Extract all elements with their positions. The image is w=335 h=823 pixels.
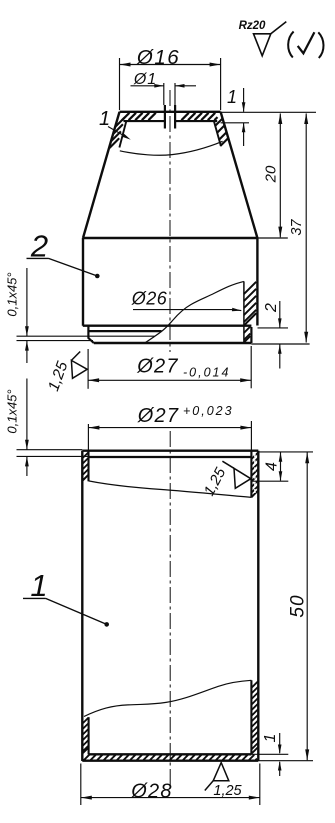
svg-text:37: 37 [289, 219, 305, 236]
svg-text:-0,014: -0,014 [183, 366, 230, 380]
svg-text:2: 2 [263, 303, 280, 313]
svg-text:4: 4 [264, 462, 281, 471]
svg-text:1: 1 [227, 87, 237, 107]
svg-text:20: 20 [262, 165, 279, 183]
svg-text:1,25: 1,25 [213, 783, 242, 799]
svg-text:Rz20: Rz20 [239, 20, 266, 32]
svg-text:+0,023: +0,023 [183, 404, 234, 418]
svg-text:Ø26: Ø26 [131, 289, 168, 309]
svg-text:Ø28: Ø28 [130, 781, 172, 803]
svg-text:50: 50 [287, 594, 308, 617]
svg-text:Ø27: Ø27 [137, 405, 179, 427]
svg-text:Ø1: Ø1 [133, 71, 157, 88]
svg-text:0,1x45°: 0,1x45° [5, 389, 20, 433]
svg-text:0,1x45°: 0,1x45° [5, 272, 20, 316]
svg-text:Ø27: Ø27 [136, 356, 178, 378]
svg-text:Ø16: Ø16 [136, 46, 180, 69]
svg-text:1: 1 [262, 734, 279, 743]
